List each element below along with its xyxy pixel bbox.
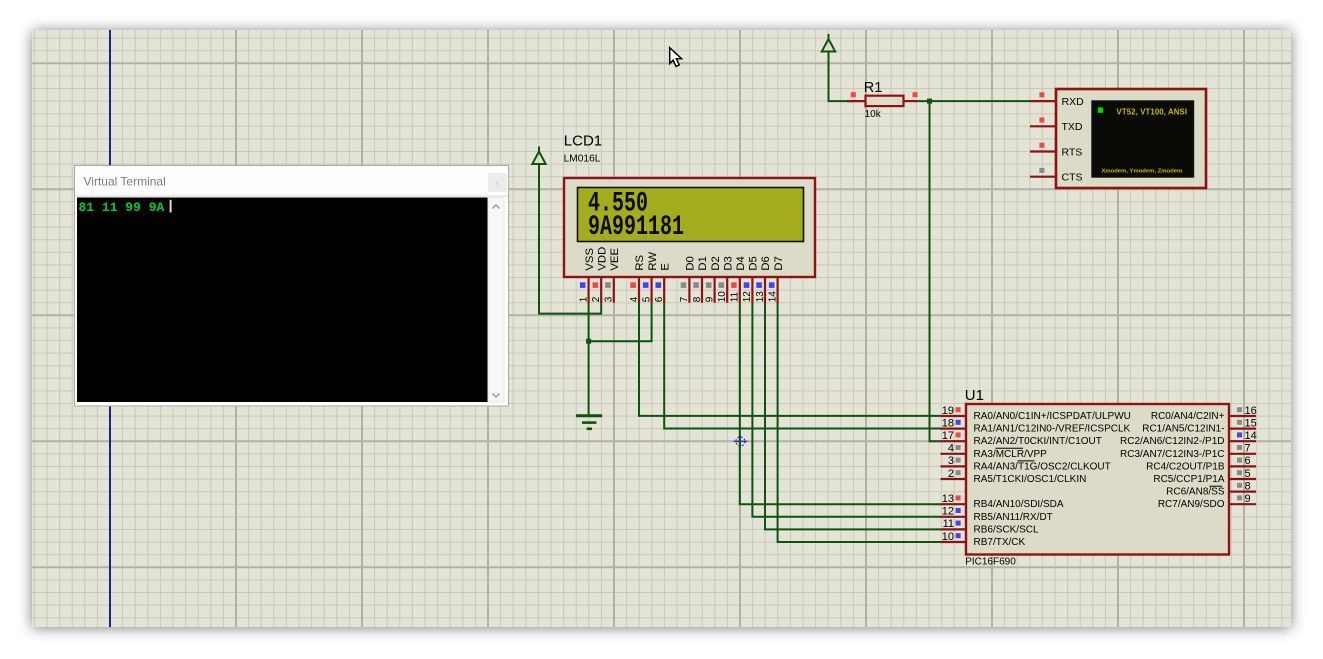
svg-text:13: 13 [755, 291, 766, 303]
svg-text:10k: 10k [865, 109, 882, 120]
svg-text:D1: D1 [697, 256, 709, 270]
svg-text:x: x [495, 178, 500, 188]
left pin stubs [941, 416, 967, 542]
svg-text:2: 2 [948, 468, 954, 480]
wire LCD D6 pin13 to PIC RB6 [765, 303, 941, 530]
left pin state squares [956, 407, 961, 538]
wire VCC arrow to LCD VDD pin2 [539, 164, 601, 314]
wire LCD VSS pin1 to ground [588, 303, 590, 416]
pin state squares [851, 92, 856, 97]
pin 9 D2 [713, 277, 715, 303]
svg-text:VT52, VT100, ANSI: VT52, VT100, ANSI [1117, 107, 1188, 116]
power symbol near LCD [532, 147, 545, 165]
wire LCD D7 pin14 to PIC RB7 [778, 303, 941, 543]
svg-text:6: 6 [654, 296, 665, 302]
svg-text:11: 11 [730, 291, 741, 302]
wire LCD RW pin5 to VSS net [589, 303, 652, 342]
overline MCLR [996, 447, 1024, 449]
pin 12 D5 [751, 277, 753, 303]
svg-text:RC1/AN5/C12IN1-: RC1/AN5/C12IN1- [1142, 424, 1224, 435]
svg-text:RB4/AN10/SDI/SDA: RB4/AN10/SDI/SDA [974, 499, 1064, 510]
svg-text:8: 8 [692, 296, 703, 302]
svg-text:1: 1 [578, 296, 589, 302]
svg-text:R1: R1 [864, 80, 883, 96]
LCD pin state squares [580, 282, 775, 288]
resistor right pin [904, 100, 918, 102]
svg-text:81 11 99 9A: 81 11 99 9A [79, 200, 165, 215]
svg-text:Xmodem, Ymodem, Zmodem: Xmodem, Ymodem, Zmodem [1102, 168, 1183, 174]
svg-text:RB6/SCK/SCL: RB6/SCK/SCL [974, 524, 1039, 535]
LCD pin name labels (rotated) [584, 247, 785, 271]
svg-text:LM016L: LM016L [564, 153, 601, 164]
window frame [75, 166, 509, 407]
svg-text:E: E [659, 263, 671, 271]
wire LCD E pin6 to PIC RA1 [664, 303, 940, 429]
svg-text:RXD: RXD [1062, 96, 1085, 108]
svg-text:7: 7 [1245, 443, 1251, 455]
svg-text:RA3/MCLR/VPP: RA3/MCLR/VPP [974, 449, 1048, 460]
scrollbar up arrow [493, 205, 500, 209]
wire node to PIC RA2 [930, 101, 941, 441]
svg-text:9A991181: 9A991181 [588, 212, 684, 243]
LCD text line1 4.550 [588, 189, 684, 244]
svg-text:D4: D4 [735, 256, 747, 270]
svg-text:D3: D3 [722, 256, 734, 270]
wire LCD D5 pin12 to PIC RB5 [752, 303, 940, 517]
scrollbar track [488, 198, 504, 403]
svg-text:D7: D7 [773, 256, 785, 270]
resistor left pin [847, 100, 866, 102]
svg-text:Virtual Terminal: Virtual Terminal [84, 175, 166, 189]
pin 1 VSS [587, 277, 589, 303]
terminal screen [1092, 101, 1194, 177]
close button [488, 173, 507, 192]
svg-text:2: 2 [591, 296, 602, 302]
overline T1G [1018, 460, 1035, 462]
pin labels [1062, 96, 1085, 184]
svg-text:D2: D2 [710, 256, 722, 270]
svg-text:RC0/AN4/C2IN+: RC0/AN4/C2IN+ [1151, 411, 1225, 422]
svg-text:D5: D5 [748, 256, 760, 270]
wire VCC arrow to R1 left [829, 52, 854, 102]
pin 14 D7 [776, 277, 778, 303]
svg-text:19: 19 [942, 405, 954, 417]
svg-text:RB5/AN11/RX/DT: RB5/AN11/RX/DT [974, 512, 1053, 523]
terminal body [1056, 89, 1206, 188]
wire LCD D4 pin11 to PIC RB4 [740, 303, 941, 505]
wire LCD RS pin4 to PIC RA0 [639, 303, 941, 416]
pin state squares [1039, 92, 1044, 97]
svg-text:RW: RW [647, 252, 659, 271]
power symbol near R1 [822, 34, 835, 52]
pin 4 RS [638, 277, 640, 303]
pin 2 VDD [600, 277, 602, 303]
svg-text:RC3/AN7/C12IN3-/P1C: RC3/AN7/C12IN3-/P1C [1120, 449, 1224, 460]
pin 7 D0 [688, 277, 690, 303]
terminal cursor [170, 200, 172, 213]
svg-text:9: 9 [1245, 493, 1251, 505]
right pin stubs [1229, 416, 1256, 504]
pin 6 E [663, 277, 665, 303]
svg-text:VEE: VEE [609, 248, 621, 271]
pin TXD [1030, 125, 1056, 127]
left pin numbers [942, 405, 954, 543]
resistor body [866, 96, 904, 106]
svg-text:CTS: CTS [1062, 172, 1083, 184]
svg-text:3: 3 [604, 296, 615, 302]
svg-text:16: 16 [1245, 405, 1257, 417]
svg-text:TXD: TXD [1062, 121, 1083, 133]
LCD pin numbers (rotated) [578, 291, 778, 303]
right pin numbers [1245, 405, 1257, 505]
junction node at VSS/RW [586, 339, 591, 344]
svg-text:D0: D0 [685, 256, 697, 270]
svg-text:12: 12 [742, 291, 753, 303]
svg-text:U1: U1 [965, 387, 984, 404]
svg-text:17: 17 [942, 430, 954, 442]
svg-text:8: 8 [1245, 480, 1251, 492]
svg-text:18: 18 [942, 417, 954, 429]
pin 3 VEE [613, 277, 615, 303]
svg-text:10: 10 [942, 531, 954, 543]
junction node at R1/RXD/RA2 [927, 99, 932, 104]
svg-text:5: 5 [641, 296, 652, 302]
PIC body [966, 404, 1229, 555]
svg-text:RC5/CCP1/P1A: RC5/CCP1/P1A [1153, 474, 1224, 485]
svg-text:RA4/AN3/T1G/OSC2/CLKOUT: RA4/AN3/T1G/OSC2/CLKOUT [974, 461, 1111, 472]
svg-text:RTS: RTS [1062, 146, 1083, 158]
svg-text:RC2/AN6/C12IN2-/P1D: RC2/AN6/C12IN2-/P1D [1120, 436, 1224, 447]
right pin state squares [1237, 407, 1242, 500]
svg-text:RB7/TX/CK: RB7/TX/CK [974, 537, 1026, 548]
svg-text:RA5/T1CKI/OSC1/CLKIN: RA5/T1CKI/OSC1/CLKIN [974, 474, 1087, 485]
pin 11 D4 [739, 277, 741, 303]
svg-text:4: 4 [629, 296, 640, 302]
pin 13 D6 [764, 277, 766, 303]
LCD screen [578, 188, 804, 242]
svg-text:7: 7 [679, 296, 690, 302]
svg-text:3: 3 [948, 455, 954, 467]
terminal black screen [77, 198, 488, 403]
ground symbol [576, 416, 602, 429]
svg-text:PIC16F690: PIC16F690 [965, 557, 1016, 568]
svg-text:4: 4 [948, 443, 954, 455]
pin RXD [1030, 100, 1056, 102]
svg-text:LCD1: LCD1 [564, 133, 602, 150]
svg-text:RA1/AN1/C12IN0-/VREF/ICSPCLK: RA1/AN1/C12IN0-/VREF/ICSPCLK [974, 424, 1131, 435]
svg-text:RS: RS [634, 254, 646, 270]
svg-text:RA0/AN0/C1IN+/ICSPDAT/ULPWU: RA0/AN0/C1IN+/ICSPDAT/ULPWU [974, 411, 1131, 422]
title separator [75, 195, 508, 197]
svg-text:RC6/AN8/SS: RC6/AN8/SS [1166, 487, 1225, 498]
svg-text:11: 11 [943, 518, 954, 530]
svg-text:9: 9 [704, 296, 715, 302]
svg-text:14: 14 [767, 291, 778, 303]
pin RTS [1030, 150, 1056, 152]
left pin labels [974, 411, 1131, 548]
overline SS [1210, 485, 1223, 487]
svg-text:VDD: VDD [596, 247, 608, 271]
LCD body [564, 178, 815, 277]
wire R1 right to terminal RXD [916, 100, 1030, 102]
svg-text:13: 13 [942, 493, 954, 505]
svg-text:15: 15 [1245, 417, 1257, 429]
origin marker (blue crosshair) [734, 435, 748, 449]
svg-text:RC4/C2OUT/P1B: RC4/C2OUT/P1B [1146, 461, 1225, 472]
LCD pins [589, 277, 778, 303]
right pin labels [1120, 411, 1225, 510]
pin 8 D1 [701, 277, 703, 303]
green status square [1098, 107, 1103, 112]
sheet border (blue line) [109, 30, 111, 627]
svg-text:D6: D6 [760, 256, 772, 270]
pin 10 D3 [726, 277, 728, 303]
scrollbar down arrow [493, 394, 500, 398]
svg-text:6: 6 [1245, 455, 1251, 467]
svg-text:VSS: VSS [584, 248, 596, 271]
svg-text:14: 14 [1245, 430, 1257, 442]
svg-text:10: 10 [717, 291, 728, 303]
svg-text:5: 5 [1245, 468, 1251, 480]
svg-text:RA2/AN2/T0CKI/INT/C1OUT: RA2/AN2/T0CKI/INT/C1OUT [974, 436, 1102, 447]
WIRES placeholder [539, 52, 1030, 543]
svg-text:RC7/AN9/SDO: RC7/AN9/SDO [1158, 499, 1225, 510]
pin 5 RW [650, 277, 652, 303]
svg-text:12: 12 [942, 506, 954, 518]
pin CTS [1030, 176, 1056, 178]
